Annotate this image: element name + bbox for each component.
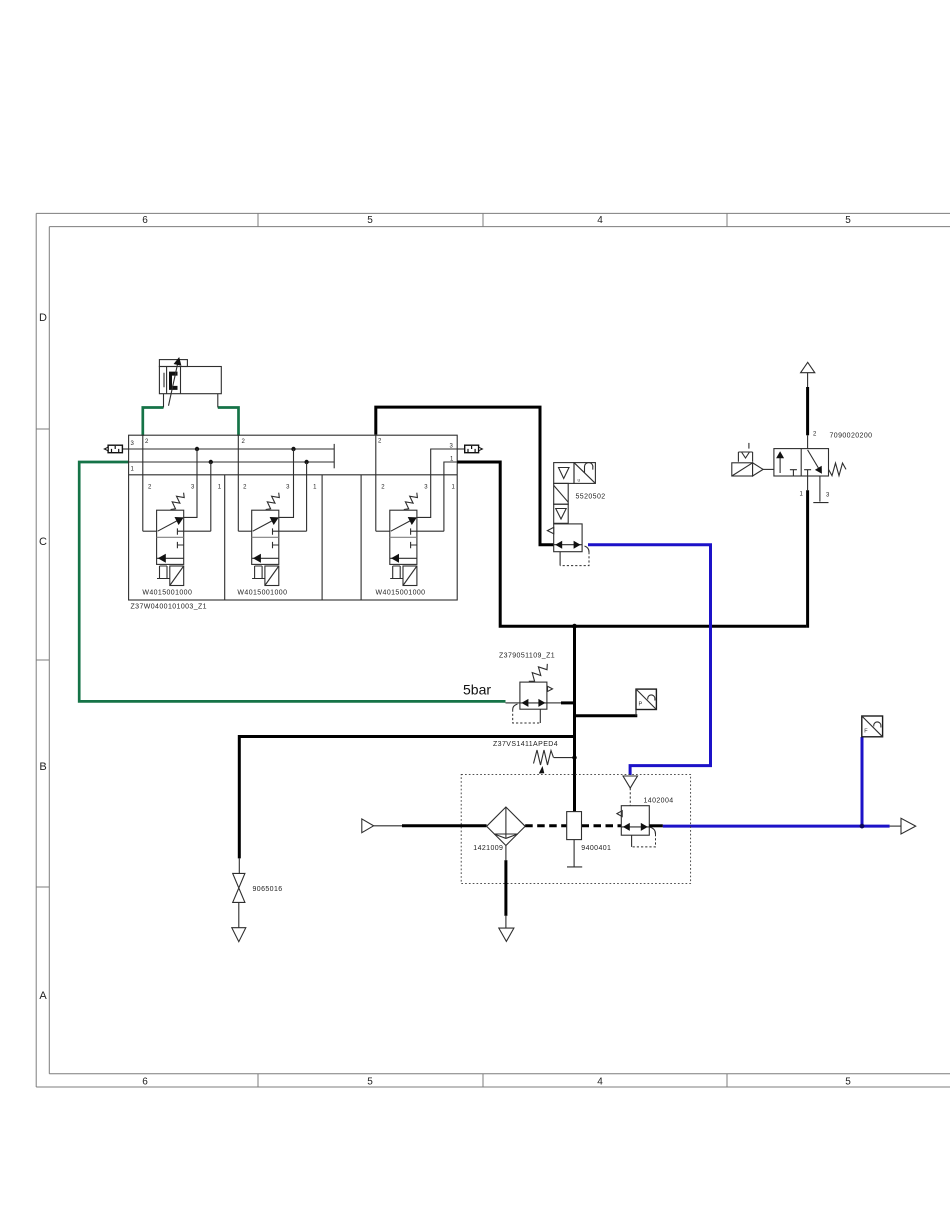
- wire: filter drain: [505, 846, 507, 861]
- spring of 7090020200: [829, 463, 847, 476]
- junction node bus: [572, 624, 577, 629]
- shutoff valve 9065016: [232, 858, 283, 941]
- drain exhaust triangle: [499, 928, 514, 941]
- svg-text:C: C: [39, 536, 47, 548]
- svg-text:P: P: [639, 702, 643, 708]
- svg-text:5: 5: [845, 1077, 851, 1088]
- svg-text:Z379051109_Z1: Z379051109_Z1: [499, 653, 555, 660]
- check triangle above 1402004: [623, 776, 638, 788]
- svg-text:Z37W0400101003_Z1: Z37W0400101003_Z1: [131, 604, 207, 611]
- wire: main vertical bus down to filter unit: [573, 626, 576, 811]
- wire: branch left to shutoff valve 9065016: [239, 737, 574, 859]
- wire port3 to rail cell 1: [184, 449, 197, 517]
- wire: main supply from manifold cell3 port1 down to bus: [457, 462, 806, 626]
- svg-text:1402004: 1402004: [644, 798, 674, 805]
- svg-text:Z37VS1411APED4: Z37VS1411APED4: [493, 741, 558, 748]
- wire: port2 of 7090020200 up to main air: [807, 373, 809, 387]
- wire: 1402004 to blue output: [649, 824, 663, 827]
- svg-text:9065016: 9065016: [253, 886, 283, 893]
- svg-text:9400401: 9400401: [581, 845, 611, 852]
- pressure switch S1 (top actuator): [159, 357, 221, 408]
- solenoid valve 7090020200 body: [774, 449, 829, 476]
- solenoid actuator of 7090020200: [732, 443, 774, 476]
- svg-text:W4015001000: W4015001000: [376, 590, 426, 597]
- wire: blue branch to gauge F: [861, 737, 864, 826]
- wire port1 to rail cell 2: [306, 462, 308, 531]
- wire: dashed main through filter unit: [525, 824, 567, 827]
- wire port3 to rail cell 2: [279, 449, 294, 517]
- junction dots on rails: [195, 447, 199, 451]
- svg-text:5bar: 5bar: [463, 682, 491, 698]
- wire: green pilot supply from regulator to manifold rail 1: [79, 462, 505, 701]
- column labels top: [142, 215, 851, 1088]
- svg-text:4: 4: [597, 1077, 603, 1088]
- wire: feed manifold cell3 port2 to valve 5520502: [376, 407, 554, 545]
- input port arrow: [362, 819, 374, 833]
- wire: vertical from valve 7090020200 port1: [806, 490, 809, 627]
- valve manifold Z37W0400101003_Z1 outer box: [129, 435, 458, 600]
- 3/2 valve W4015001000 cell 2: [237, 435, 306, 596]
- wire: branch to gauge P: [575, 714, 638, 717]
- manifold rail port 3 (exhaust): [129, 448, 335, 450]
- wire: input line to filter: [402, 824, 487, 827]
- relief valve Z37VS1411APED4: [493, 741, 577, 774]
- right silencer: [457, 445, 482, 453]
- wire: green branch to pressure switch right: [218, 408, 239, 436]
- proportional pressure regulator 5520502: [547, 463, 605, 566]
- wire: blue output line to port: [663, 825, 890, 828]
- 3/2 valve W4015001000 cell 3: [376, 435, 458, 596]
- regulator 1402004: [617, 798, 674, 847]
- svg-text:5: 5: [845, 215, 851, 226]
- filter with separator 1421009: [473, 807, 525, 852]
- pressure regulator Z379051109_Z1 (5bar): [463, 653, 575, 724]
- svg-text:A: A: [39, 990, 47, 1002]
- svg-text:4: 4: [597, 215, 603, 226]
- svg-text:5: 5: [367, 1077, 373, 1088]
- wire: blue output of 5520502 to check valve: [588, 545, 711, 775]
- rail end terminator: [333, 444, 335, 468]
- svg-text:W4015001000: W4015001000: [142, 590, 192, 597]
- wire port3 to silencer cell 3: [417, 449, 457, 517]
- output port arrow right: [890, 825, 901, 827]
- svg-text:6: 6: [142, 215, 148, 226]
- filter unit enclosure (dashed): [461, 774, 690, 883]
- port1/port3 below 7090020200: [807, 476, 809, 490]
- svg-text:5: 5: [367, 215, 373, 226]
- electronic pressure gauge P: [636, 689, 656, 716]
- svg-text:5520502: 5520502: [576, 494, 606, 501]
- electronic flow gauge F: [862, 716, 883, 737]
- svg-text:1421009: 1421009: [473, 845, 503, 852]
- svg-text:6: 6: [142, 1077, 148, 1088]
- left silencer: [104, 445, 128, 453]
- orifice 9400401: [567, 812, 612, 867]
- manifold rail port 1 (supply): [129, 461, 335, 463]
- wire port1 from supply cell 3: [444, 462, 457, 531]
- main air triangle port up: [801, 362, 815, 372]
- manual override symbol: [738, 452, 752, 462]
- manifold cell dividers: [225, 475, 361, 600]
- svg-text:W4015001000: W4015001000: [237, 590, 287, 597]
- svg-text:7090020200: 7090020200: [830, 433, 873, 440]
- svg-text:B: B: [39, 761, 46, 773]
- pilot loop regulator: [513, 704, 518, 710]
- wire port1 to rail cell 1: [210, 462, 212, 531]
- sheet border frame: [36, 213, 950, 1087]
- svg-text:D: D: [39, 312, 47, 324]
- wire: green branch to pressure switch left: [143, 408, 164, 436]
- 3/2 valve W4015001000 cell 1: [142, 435, 210, 596]
- pilot loop 5520502: [585, 546, 590, 552]
